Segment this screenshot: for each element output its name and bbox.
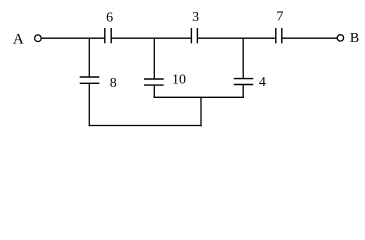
terminal B bbox=[337, 35, 343, 41]
wire junction2 down to C10 bbox=[153, 38, 155, 79]
terminal A bbox=[35, 35, 42, 42]
wire junction3 down to C4 bbox=[242, 38, 244, 78]
wire bottom bus C8 to connector bbox=[89, 125, 202, 127]
wire middle bus C10 to C4 bbox=[154, 96, 244, 98]
svg-text:10: 10 bbox=[172, 73, 186, 88]
capacitor C10 bbox=[144, 79, 164, 85]
capacitor C3 bbox=[191, 28, 197, 43]
wire C6 to C3 bbox=[111, 37, 191, 39]
svg-text:B: B bbox=[350, 31, 359, 46]
svg-text:4: 4 bbox=[259, 75, 266, 90]
wire connector middle bus to bottom bus bbox=[200, 97, 202, 126]
wire C3 to C7 bbox=[197, 37, 275, 39]
capacitor C6 bbox=[105, 28, 111, 43]
svg-text:6: 6 bbox=[106, 10, 113, 25]
svg-text:8: 8 bbox=[110, 76, 117, 91]
svg-text:3: 3 bbox=[192, 10, 199, 25]
wire A to C6 bbox=[42, 37, 105, 39]
svg-text:A: A bbox=[13, 31, 24, 47]
capacitor C4 bbox=[234, 79, 254, 85]
wire junction1 down to C8 bbox=[88, 38, 90, 77]
wire C8 down to bottom bus bbox=[88, 83, 90, 126]
capacitor C8 bbox=[80, 77, 100, 83]
svg-text:7: 7 bbox=[276, 10, 283, 25]
wire C4 down to middle bus bbox=[242, 85, 244, 99]
wire C7 to B bbox=[282, 37, 337, 39]
capacitor C7 bbox=[276, 28, 282, 43]
wire C10 down to middle bus bbox=[153, 85, 155, 98]
